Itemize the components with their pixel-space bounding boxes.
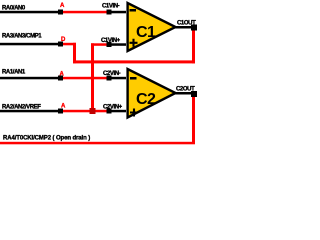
- wire C1VIN+ from reference riser: [91, 43, 109, 46]
- svg-text:C2VIN+: C2VIN+: [103, 105, 123, 111]
- junction C2OUT: [191, 91, 197, 97]
- wire C1OUT return horizontal: [73, 60, 195, 63]
- junction RA3: [58, 42, 63, 47]
- wire C1VIN- stub: [109, 11, 126, 14]
- C2 plus input symbol: [130, 109, 138, 117]
- wire RA1 pin line: [0, 77, 60, 80]
- wire RA3 pin line: [0, 43, 60, 46]
- wire C2VIN- stub: [109, 77, 126, 80]
- junction C1OUT: [191, 25, 197, 31]
- wire common reference riser: [91, 43, 94, 112]
- svg-text:C1VIN-: C1VIN-: [102, 4, 120, 10]
- wire C1OUT return vertical step: [73, 43, 76, 64]
- wire RA2 pin line: [0, 110, 60, 113]
- junction C2VIN- input: [107, 76, 112, 81]
- svg-text:RA2/AN2/VREF: RA2/AN2/VREF: [2, 105, 41, 111]
- svg-text:C2OUT: C2OUT: [176, 87, 195, 93]
- svg-text:C1OUT: C1OUT: [177, 21, 196, 27]
- wire C2VIN+ stub: [109, 110, 126, 113]
- svg-text:C2: C2: [136, 91, 156, 108]
- junction C1VIN- input: [107, 10, 112, 15]
- wire RA4 / C2OUT return bottom: [0, 142, 195, 145]
- wire RA0 to C1VIN-: [63, 11, 109, 14]
- op-amp comparator C1: [128, 3, 176, 51]
- junction C1VIN+ input: [107, 42, 112, 47]
- svg-text:RA4/T0CKI/CMP2 ( Open drain ): RA4/T0CKI/CMP2 ( Open drain ): [3, 136, 90, 142]
- svg-text:C1: C1: [136, 24, 156, 41]
- C1 plus input symbol: [130, 39, 138, 47]
- junction RA2: [58, 109, 63, 114]
- svg-text:RA3/AN3/CMP1: RA3/AN3/CMP1: [2, 34, 42, 40]
- wire RA2 to C2VIN+: [63, 110, 109, 113]
- wire C2OUT return descender: [192, 94, 195, 143]
- junction riser on RA2 wire: [90, 108, 96, 114]
- svg-text:C2VIN-: C2VIN-: [103, 71, 121, 77]
- wire C1VIN+ stub: [109, 43, 126, 46]
- op-amp comparator C2: [128, 69, 176, 118]
- junction RA1: [58, 76, 63, 81]
- wire C2 output stub: [175, 92, 194, 95]
- wire RA3 to C1OUT return step: [63, 43, 76, 46]
- junction C2VIN+ input: [107, 109, 112, 114]
- wire C1 output stub: [175, 26, 194, 29]
- wire RA0 pin line: [0, 11, 60, 14]
- C2 minus input symbol: [130, 77, 137, 80]
- svg-text:RA1/AN1: RA1/AN1: [2, 70, 26, 76]
- junction RA0: [58, 10, 63, 15]
- wire C1OUT return descender: [192, 28, 195, 63]
- C1 minus input symbol: [130, 9, 137, 12]
- wire RA1 to C2VIN-: [63, 77, 109, 80]
- svg-text:RA0/AN0: RA0/AN0: [2, 6, 26, 12]
